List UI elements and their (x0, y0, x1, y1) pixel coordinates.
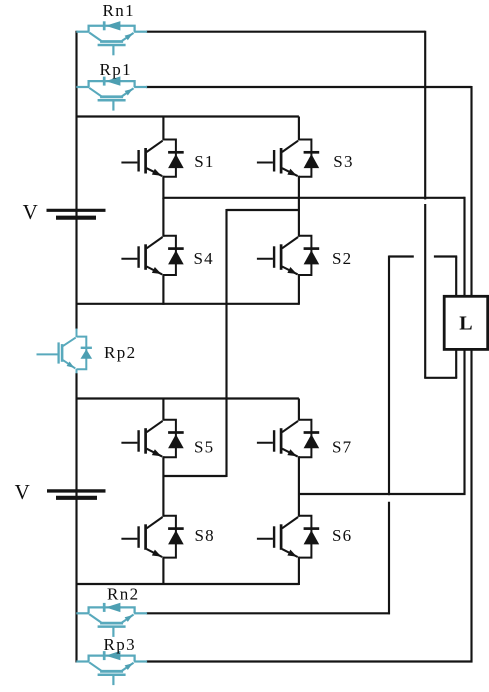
wire left rail lower segment (75, 373, 77, 663)
wire S6 bottom terminal (298, 557, 300, 585)
transistor Rp2 (77, 337, 87, 370)
wire S4 bottom terminal (162, 274, 164, 305)
transistor Rn2 (89, 607, 135, 613)
inductor L box (444, 296, 488, 349)
wire S8 bottom terminal (162, 557, 164, 585)
wire Rp1 vertical right edge (470, 86, 472, 663)
wire lower bridge positive rail (76, 397, 299, 399)
wire mid vertical x464 (463, 197, 465, 495)
wire top bridge negative rail (76, 303, 299, 305)
wire y257 horizontal segment B (434, 255, 457, 257)
transistor S4 (163, 236, 176, 275)
svg-text:Rn1: Rn1 (103, 1, 136, 20)
wire bracket horizontal y210 (227, 209, 299, 211)
wire lower bridge right mid rail (299, 493, 466, 495)
wire Rn2 output horizontal (146, 612, 390, 614)
wire lower bridge left node (163, 475, 226, 477)
svg-text:Rp3: Rp3 (104, 635, 137, 654)
transistor S1 (163, 140, 176, 177)
svg-text:Rn2: Rn2 (107, 584, 140, 603)
svg-text:S6: S6 (332, 526, 352, 545)
wire Rn1 output horizontal (146, 31, 425, 33)
battery V2 long plate (47, 489, 106, 492)
wire x389 vertical upper (388, 256, 390, 496)
svg-text:S1: S1 (194, 152, 214, 171)
wire y257 horizontal segment A (389, 255, 414, 257)
svg-text:S2: S2 (332, 249, 352, 268)
wire loop vertical x456 (455, 257, 457, 378)
svg-text:Rp1: Rp1 (100, 60, 133, 79)
transistor Rp1 (89, 81, 135, 87)
wire Rp1 output horizontal (146, 86, 471, 88)
svg-text:S3: S3 (333, 152, 353, 171)
wire S1 bottom terminal (162, 176, 164, 199)
wire bottom jog horizontal y378 (424, 377, 457, 379)
transistor Rn1 (89, 26, 135, 32)
wire S7 top terminal (298, 399, 300, 421)
svg-text:V: V (23, 200, 40, 224)
wire bracket vertical x226 (225, 209, 227, 477)
wire S3-S2 connecting vertical (298, 176, 300, 237)
battery V1 short plate (56, 216, 96, 220)
wire left rail upper segment (75, 31, 77, 329)
svg-text:S4: S4 (194, 249, 214, 268)
wire S7-S6 connecting vertical (298, 456, 300, 517)
transistor S8 (163, 516, 176, 558)
wire crossover gap at (389,494) (387, 495, 392, 500)
wire S2 bottom terminal (298, 274, 300, 305)
wire S4 top terminal (162, 198, 164, 237)
wire S5 top terminal (162, 399, 164, 421)
wire x389 vertical lower (388, 502, 390, 615)
battery V2 short plate (56, 496, 97, 500)
wire Rn1 vertical right (424, 31, 426, 378)
wire S5-S8 connecting vertical (162, 456, 164, 517)
transistor S2 (299, 236, 312, 275)
svg-text:Rp2: Rp2 (104, 343, 137, 362)
svg-text:V: V (15, 480, 32, 504)
battery V1 long plate (47, 209, 106, 212)
transistor S6 (299, 516, 312, 558)
svg-text:S5: S5 (194, 438, 214, 457)
wire Rp3 output horizontal (146, 660, 472, 662)
svg-text:S7: S7 (332, 438, 352, 457)
transistor S7 (299, 420, 312, 458)
svg-text:L: L (459, 313, 472, 335)
wire S1 top terminal (162, 117, 164, 141)
wire S3 top terminal (298, 117, 300, 141)
wire lower bridge negative rail (76, 583, 299, 585)
wire top bridge positive rail (76, 115, 299, 117)
transistor S3 (299, 140, 312, 177)
transistor Rp3 (89, 656, 135, 662)
wire crossover gap at (425,198) (423, 199, 428, 204)
svg-text:S8: S8 (195, 526, 215, 545)
transistor S5 (163, 420, 176, 458)
wire top bridge mid rail (163, 197, 464, 199)
